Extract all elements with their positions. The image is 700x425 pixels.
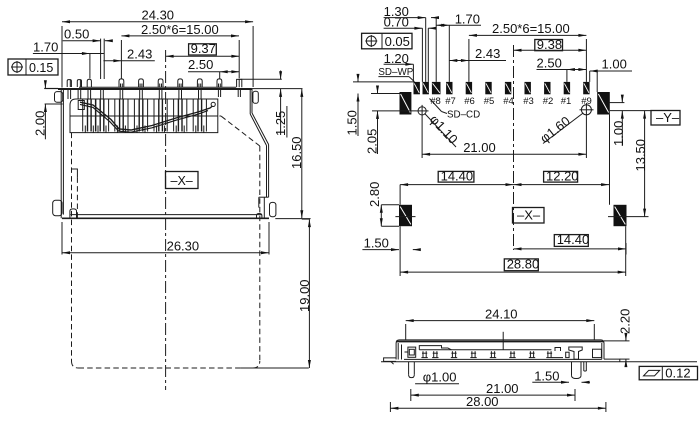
card outline hidden (72, 115, 222, 117)
svg-text:24.30: 24.30 (142, 8, 175, 23)
left top mounting tab (55, 92, 63, 103)
dim 13.50 (631, 216, 649, 218)
bottom bar of body (71, 214, 262, 216)
dim 28.80 boxed (504, 259, 538, 271)
svg-text:2.80: 2.80 (367, 182, 382, 207)
interior: wp switch block (408, 347, 416, 357)
center tick side view (502, 332, 504, 350)
dim 14.40 lower boxed (554, 235, 588, 247)
dim 24.30 (62, 21, 253, 23)
big pad right (597, 92, 610, 115)
svg-text:9.37: 9.37 (191, 41, 216, 56)
dim 1.00 vertical (609, 102, 625, 104)
svg-text:#2: #2 (543, 96, 554, 107)
datum label -Y- (610, 110, 651, 112)
right smt lead (583, 362, 585, 371)
svg-text:14.40: 14.40 (441, 168, 474, 183)
dim 24.10 (405, 324, 407, 340)
dim 2.80 (381, 204, 399, 206)
svg-text:#3: #3 (523, 96, 534, 107)
pin tails into body (67, 90, 69, 99)
svg-text:16.50: 16.50 (289, 136, 304, 169)
dim 1.25 (280, 71, 282, 80)
left peg (408, 362, 410, 375)
svg-text:24.10: 24.10 (485, 306, 518, 321)
svg-text:φ1.00: φ1.00 (423, 369, 457, 384)
svg-text:12.20: 12.20 (546, 168, 579, 183)
svg-text:2.20: 2.20 (618, 309, 633, 334)
connector body outline (44, 88, 58, 90)
contact feet (422, 351, 424, 357)
right flange (604, 359, 620, 362)
hole SD-CD phi1.10 (418, 107, 426, 115)
svg-text:9.38: 9.38 (537, 37, 562, 52)
svg-text:1.25: 1.25 (273, 111, 288, 136)
parallelogram frame 0.12 (639, 366, 697, 379)
dim 2.20 (604, 340, 630, 342)
card detect spring wire (80, 102, 213, 130)
svg-text:2.50: 2.50 (537, 55, 562, 70)
pcb line (381, 361, 697, 363)
svg-text:φ1.60: φ1.60 (537, 113, 573, 146)
side body shell (396, 340, 604, 360)
svg-text:21.00: 21.00 (463, 140, 496, 155)
svg-text:2.05: 2.05 (365, 129, 380, 154)
pin tails row (79, 86, 236, 88)
svg-text:2.00: 2.00 (32, 111, 47, 136)
centerline right view (513, 45, 515, 250)
right peg (571, 362, 573, 376)
right wall with chamfer (249, 88, 251, 114)
left flange (384, 358, 397, 362)
left bottom mounting tab (53, 200, 62, 215)
right interior blocks (555, 348, 561, 352)
svg-text:0.50: 0.50 (64, 27, 89, 42)
wire end loop (211, 102, 215, 106)
svg-text:0.05: 0.05 (385, 34, 410, 49)
dim 28.00 (389, 402, 391, 412)
svg-text:1.00: 1.00 (602, 57, 627, 72)
svg-text:1.50: 1.50 (534, 368, 559, 383)
svg-text:#1: #1 (561, 96, 572, 107)
contact fingers (70, 115, 218, 117)
dim 14.40 boxed (438, 171, 474, 182)
svg-text:26.30: 26.30 (167, 239, 200, 254)
right top tab (253, 91, 258, 103)
dim 2.00 (44, 87, 58, 89)
svg-text:SD–CD: SD–CD (447, 110, 480, 121)
SMT pads row (414, 82, 420, 94)
leader phi1.60 (543, 113, 583, 144)
dim 9.38 boxed (535, 40, 563, 51)
svg-text:#6: #6 (464, 96, 475, 107)
dim 0.70 (384, 27, 423, 29)
label SD-CD (430, 99, 442, 112)
svg-text:0.12: 0.12 (665, 365, 690, 380)
svg-text:28.00: 28.00 (466, 394, 499, 409)
svg-text:#4: #4 (503, 96, 514, 107)
svg-text:–X–: –X– (171, 174, 193, 188)
left bottom foot (70, 209, 77, 218)
dim 9.37 boxed (189, 44, 217, 55)
interior shelf (419, 346, 451, 350)
svg-text:1.50: 1.50 (364, 236, 389, 251)
dim 2.05 (372, 110, 416, 112)
svg-text:0.15: 0.15 (29, 61, 53, 75)
dim 16.50 (275, 218, 310, 220)
dim 1.50 left (353, 81, 413, 83)
bottom right step (259, 196, 269, 198)
svg-text:#7: #7 (445, 96, 456, 107)
dim 21.00 side (410, 389, 412, 401)
dim 21.00 right view (421, 117, 423, 158)
svg-text:0.70: 0.70 (384, 15, 409, 30)
dim 26.30 (61, 222, 63, 255)
dim 12.20 boxed (544, 171, 578, 182)
tolerance frame 0.15 (8, 59, 58, 75)
right bottom tab (270, 202, 276, 216)
centerline X (165, 50, 167, 390)
svg-text:2.43: 2.43 (127, 47, 152, 62)
svg-text:1.50: 1.50 (345, 110, 360, 135)
datum label -X- (166, 172, 199, 189)
tolerance frame 0.05 (362, 33, 412, 49)
svg-text:13.50: 13.50 (633, 139, 648, 172)
dim phi1.00 (415, 383, 459, 385)
svg-text:1.20: 1.20 (384, 51, 409, 66)
svg-text:2.50*6=15.00: 2.50*6=15.00 (141, 22, 219, 37)
svg-text:2.50*6=15.00: 2.50*6=15.00 (492, 21, 570, 36)
svg-text:–Y–: –Y– (656, 110, 680, 125)
svg-text:1.00: 1.00 (611, 121, 626, 146)
svg-text:2.43: 2.43 (475, 46, 500, 61)
dim 19.00 (302, 218, 310, 220)
contact block (70, 99, 218, 133)
lower pad left (399, 205, 412, 226)
seating segments (404, 358, 602, 360)
lower pad right (614, 205, 627, 226)
svg-text:19.00: 19.00 (297, 279, 312, 312)
svg-text:–X–: –X– (517, 208, 541, 223)
big pad left (400, 92, 412, 115)
svg-text:1.70: 1.70 (455, 12, 480, 27)
svg-text:1.70: 1.70 (33, 40, 58, 55)
leader phi1.10 (425, 113, 456, 147)
svg-text:28.80: 28.80 (507, 256, 540, 271)
datum label -X- right view (513, 208, 545, 224)
hole phi1.60 (581, 105, 591, 115)
svg-text:#5: #5 (484, 96, 495, 107)
write protect step (72, 169, 78, 177)
svg-text:14.40: 14.40 (557, 232, 590, 247)
svg-text:2.50: 2.50 (188, 57, 213, 72)
